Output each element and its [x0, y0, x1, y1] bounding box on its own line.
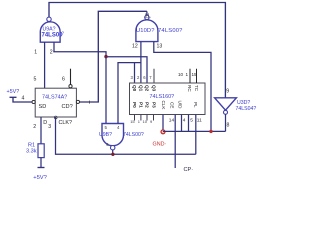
wire U10D pin12 to counter Q1	[140, 42, 142, 83]
flip-flop U? 74LS74A box	[35, 88, 76, 117]
counter bottom stub P3	[153, 115, 155, 121]
wire counter pin4 down	[181, 115, 183, 132]
svg-text:Q3: Q3	[152, 85, 157, 92]
counter bottom stub P0	[134, 115, 136, 121]
svg-text:CLK?: CLK?	[59, 120, 73, 126]
wire U10D pin11 net to 74LS74 pin1	[80, 11, 147, 102]
svg-text:+5V?: +5V?	[33, 175, 47, 181]
pin 4 bubble (74LS74 SD)	[32, 100, 35, 103]
+5V power symbol upper	[10, 97, 33, 102]
wire counter pin14 to GND junction	[162, 115, 164, 132]
pin 1 bubble (74LS74 CD)	[76, 100, 79, 103]
svg-text:CP·: CP·	[184, 167, 194, 173]
wire U3D output down	[225, 114, 227, 131]
counter bottom stub P1	[140, 115, 142, 121]
junction dot U9B output	[111, 153, 114, 156]
counter top right stub 2	[196, 69, 198, 83]
svg-text:12: 12	[132, 44, 138, 50]
counter top right stub 1	[189, 69, 191, 83]
svg-text:U/D: U/D	[177, 101, 182, 110]
wire U10D output pin11 up	[146, 11, 148, 15]
svg-text:74LS00?: 74LS00?	[158, 28, 183, 34]
wire counter Q0 column	[134, 63, 136, 83]
svg-text:74LS74A?: 74LS74A?	[42, 94, 67, 100]
svg-text:8: 8	[227, 123, 230, 129]
svg-text:+5V?: +5V?	[7, 89, 20, 95]
svg-text:3: 3	[48, 124, 51, 130]
counter IC box	[130, 83, 206, 115]
svg-text:11: 11	[197, 118, 202, 124]
nand gate U10D	[136, 15, 158, 41]
svg-text:6: 6	[62, 77, 65, 83]
svg-text:Q0: Q0	[132, 85, 137, 92]
wire 74LS74 pin3 CLK to bottom bus	[56, 117, 196, 154]
svg-text:SD: SD	[39, 104, 47, 110]
svg-text:U10D?: U10D?	[136, 28, 155, 34]
svg-text:RC: RC	[187, 85, 192, 92]
wire resistor to +5V lower	[40, 158, 42, 168]
wire CP stub	[174, 115, 176, 169]
wire counter pin5 down	[188, 115, 190, 132]
svg-text:CLK: CLK	[161, 101, 166, 111]
svg-text:5: 5	[190, 118, 193, 124]
svg-text:15: 15	[192, 72, 198, 77]
svg-text:74LS00?: 74LS00?	[123, 132, 144, 138]
svg-text:10: 10	[178, 72, 184, 77]
svg-text:1: 1	[186, 72, 189, 77]
wire U9B output to bus	[112, 150, 114, 154]
svg-text:11.: 11.	[145, 13, 152, 19]
svg-text:Q1: Q1	[138, 85, 143, 92]
wire counter pin11 to bus	[195, 115, 197, 155]
wire bottom horizontal net BO	[163, 130, 226, 132]
resistor R1	[38, 144, 44, 158]
svg-text:PL: PL	[193, 102, 198, 108]
svg-text:P1: P1	[138, 102, 143, 108]
junction dot right	[209, 130, 212, 133]
wire top net from U9A output to U3D input	[49, 3, 225, 98]
svg-text:CE: CE	[169, 102, 174, 108]
nand gate U9B pointing down	[102, 124, 124, 150]
pin 6 stub with bubble	[70, 69, 72, 85]
junction dot GND	[161, 130, 165, 134]
wire U9B right input up and over	[118, 63, 141, 124]
svg-text:74LS04?: 74LS04?	[236, 106, 257, 112]
svg-text:Q2: Q2	[145, 85, 150, 92]
junction dot A	[104, 55, 107, 58]
wire U10D pin13 to right vertical	[154, 42, 211, 132]
wire 74LS74 pin2 to resistor	[40, 117, 42, 144]
counter Q3 stub	[153, 69, 155, 83]
svg-text:74LS00: 74LS00	[42, 33, 64, 39]
svg-text:P2: P2	[145, 102, 150, 108]
svg-text:GND·: GND·	[153, 142, 167, 148]
svg-text:TC: TC	[194, 85, 199, 92]
nand gate U9A	[40, 17, 60, 42]
svg-text:5: 5	[34, 77, 37, 83]
wire U9A pin2 to junction and counter	[54, 42, 147, 83]
svg-text:P0: P0	[132, 102, 137, 108]
clock pin bubble (74LS74)	[54, 116, 57, 119]
+5V power symbol lower	[38, 167, 45, 169]
svg-text:1: 1	[34, 50, 37, 56]
svg-text:13: 13	[157, 44, 163, 50]
svg-text:4: 4	[22, 96, 25, 102]
svg-text:U9B?: U9B?	[99, 132, 112, 138]
svg-text:9: 9	[226, 88, 229, 94]
wire junction A to U9B input 5	[105, 57, 107, 124]
svg-text:4: 4	[183, 118, 186, 124]
wire U9A pin1 to 74LS74 pin5	[44, 42, 46, 88]
counter bottom stub P2	[146, 115, 148, 121]
svg-text:CD?: CD?	[62, 104, 73, 110]
svg-text:D: D	[43, 120, 47, 126]
svg-text:P3: P3	[152, 102, 157, 108]
svg-text:74LS160?: 74LS160?	[150, 94, 175, 100]
svg-text:R1: R1	[28, 142, 35, 148]
inverter U3D	[215, 98, 237, 115]
svg-text:3.3k: 3.3k	[26, 149, 37, 155]
tick on pin1 wire	[88, 101, 91, 104]
svg-text:2: 2	[33, 124, 36, 130]
